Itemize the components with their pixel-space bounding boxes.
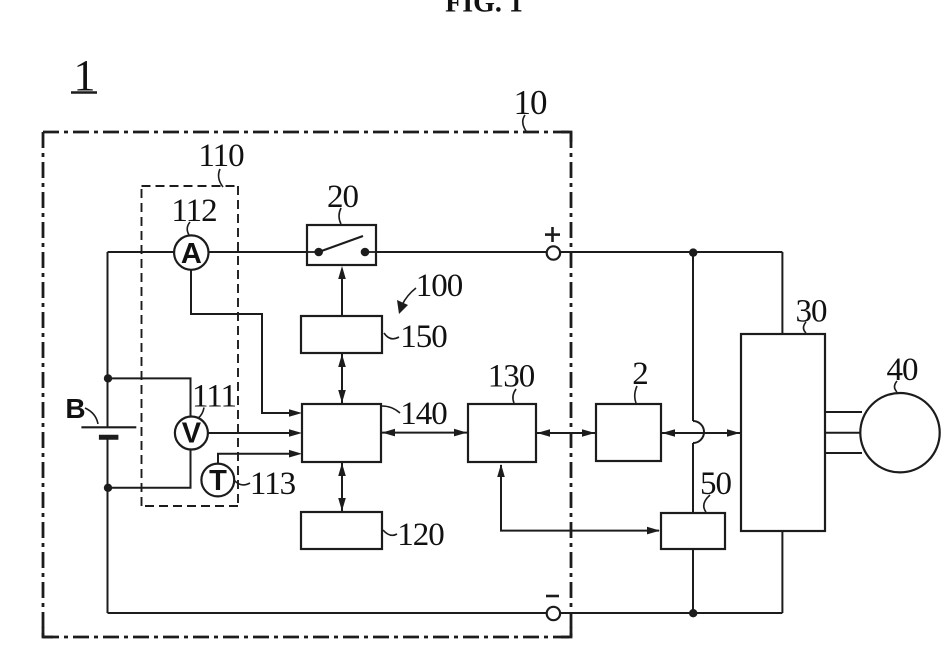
- svg-text:1: 1: [74, 51, 95, 100]
- svg-text:20: 20: [327, 179, 359, 215]
- svg-text:130: 130: [488, 359, 535, 395]
- svg-text:T: T: [209, 465, 227, 497]
- svg-text:111: 111: [192, 379, 236, 415]
- svg-text:A: A: [181, 238, 202, 270]
- svg-text:50: 50: [700, 466, 732, 502]
- svg-text:110: 110: [198, 138, 244, 174]
- svg-text:FIG. 1: FIG. 1: [445, 0, 523, 19]
- svg-text:2: 2: [632, 356, 648, 392]
- svg-text:100: 100: [416, 268, 463, 304]
- svg-text:113: 113: [250, 466, 296, 502]
- svg-text:V: V: [182, 418, 202, 450]
- svg-text:120: 120: [397, 517, 444, 553]
- svg-text:112: 112: [171, 193, 216, 229]
- svg-text:150: 150: [400, 319, 447, 355]
- svg-text:10: 10: [514, 83, 548, 122]
- svg-text:30: 30: [796, 294, 828, 330]
- svg-text:40: 40: [887, 352, 919, 388]
- svg-text:140: 140: [400, 396, 447, 432]
- svg-text:B: B: [65, 393, 85, 424]
